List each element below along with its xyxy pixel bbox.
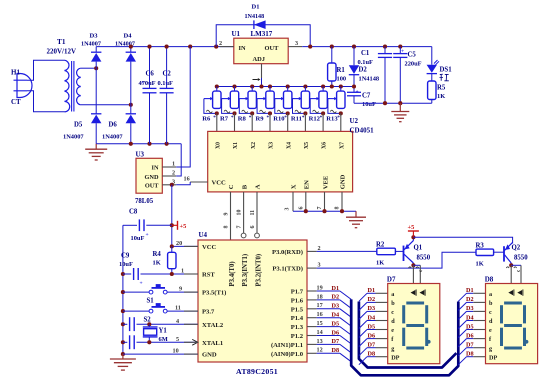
- wire bus to D7 pin (net D7): [359, 348, 367, 356]
- wire bus to D7 pin (net D6): [359, 339, 367, 347]
- svg-text:OUT: OUT: [265, 45, 280, 52]
- svg-text:11: 11: [250, 210, 256, 216]
- svg-text:P3.1(TXD): P3.1(TXD): [272, 266, 303, 273]
- svg-text:Q1: Q1: [414, 245, 423, 252]
- svg-text:VCC: VCC: [202, 244, 217, 251]
- svg-text:D5: D5: [368, 323, 376, 330]
- wire +12 to U3 IN: [176, 47, 190, 167]
- node secondary-bottom / D4-D6 junction: [129, 103, 133, 107]
- svg-text:(AIN0)P1.0: (AIN0)P1.0: [271, 351, 304, 358]
- svg-text:C1: C1: [361, 50, 370, 57]
- connector H1 (AC plug): [14, 74, 33, 98]
- svg-text:10uF: 10uF: [362, 101, 376, 108]
- svg-text:B: B: [241, 184, 248, 189]
- svg-text:LM317: LM317: [251, 30, 273, 38]
- svg-text:8550: 8550: [514, 255, 528, 262]
- pin 1 U1 ADJ: [261, 64, 263, 78]
- svg-text:DS1: DS1: [440, 67, 453, 74]
- pin 10 U2 B to U4 pin 7: [243, 192, 245, 233]
- svg-text:10uF: 10uF: [131, 235, 145, 242]
- svg-text:+5: +5: [408, 224, 415, 231]
- svg-text:VCC: VCC: [212, 180, 227, 187]
- svg-text:3: 3: [318, 262, 321, 269]
- wire secondary bottom to bridge: [81, 104, 131, 106]
- svg-text:6: 6: [250, 226, 256, 229]
- svg-text:7: 7: [317, 207, 323, 210]
- svg-text:S1: S1: [147, 298, 155, 305]
- svg-text:VEE: VEE: [322, 175, 329, 189]
- svg-text:20: 20: [176, 240, 182, 247]
- wire Q2 collector to D8 anodes: [509, 263, 513, 267]
- svg-text:1K: 1K: [376, 260, 384, 267]
- wire bus to D8 pin (net D8): [458, 357, 466, 365]
- svg-text:78L05: 78L05: [135, 198, 154, 205]
- svg-text:P1.5: P1.5: [291, 306, 304, 313]
- wire P1.1 (net D7) to bus: [307, 343, 317, 345]
- svg-text:D1: D1: [466, 287, 474, 294]
- display D7 (7-segment): [388, 284, 440, 364]
- svg-text:P1.2: P1.2: [291, 333, 304, 340]
- svg-text:D7: D7: [368, 342, 376, 349]
- svg-text:Q2: Q2: [512, 245, 521, 252]
- svg-text:GND: GND: [145, 174, 159, 181]
- svg-text:+: +: [146, 232, 149, 238]
- wire bus to D7 pin (net D5): [359, 330, 367, 338]
- svg-text:5: 5: [176, 336, 179, 343]
- svg-text:0.1uF: 0.1uF: [358, 59, 374, 66]
- svg-text:D6: D6: [368, 332, 376, 339]
- potentiometer R10: [286, 84, 290, 88]
- svg-text:3: 3: [285, 208, 291, 211]
- svg-text:U2: U2: [350, 117, 359, 125]
- pin X6 wire: [322, 113, 324, 131]
- svg-text:R1: R1: [337, 67, 346, 74]
- node secondary-top / D3-D5 junction: [94, 66, 98, 70]
- svg-text:RST: RST: [202, 272, 215, 279]
- svg-text:11: 11: [175, 305, 181, 312]
- svg-text:7: 7: [237, 226, 243, 229]
- svg-text:R5: R5: [437, 85, 446, 92]
- svg-text:1: 1: [181, 268, 184, 275]
- svg-text:D2: D2: [359, 67, 368, 74]
- svg-text:8550: 8550: [417, 255, 431, 262]
- svg-text:4: 4: [176, 318, 179, 325]
- svg-text:P3.0(RXD): P3.0(RXD): [272, 249, 303, 256]
- svg-text:R9: R9: [256, 116, 265, 123]
- svg-text:16: 16: [184, 176, 190, 183]
- svg-text:R8: R8: [238, 116, 247, 123]
- svg-text:*: *: [320, 115, 323, 121]
- wire bus to D8 pin (net D5): [458, 330, 466, 338]
- pin 1 U4 RST: [184, 273, 198, 275]
- pin 8 U2 GND: [341, 192, 343, 211]
- svg-text:2: 2: [318, 245, 321, 252]
- svg-text:18: 18: [317, 293, 323, 300]
- svg-text:D8: D8: [485, 276, 494, 284]
- pin 2 U3 GND: [162, 175, 176, 177]
- wire P1.3 (net D5) to bus: [307, 326, 317, 328]
- svg-text:14: 14: [317, 329, 323, 336]
- svg-text:*: *: [213, 115, 216, 121]
- svg-text:c: c: [391, 309, 394, 316]
- svg-text:D4: D4: [368, 314, 376, 321]
- potentiometer R12: [321, 84, 325, 88]
- ground (U2): [355, 211, 357, 217]
- power flag +5 (display driver): [411, 235, 415, 239]
- svg-text:16: 16: [317, 311, 323, 318]
- potentiometer R6: [215, 84, 219, 88]
- svg-text:P3.5(T1): P3.5(T1): [202, 290, 226, 297]
- svg-text:R6: R6: [202, 116, 211, 123]
- potentiometer R13: [339, 84, 343, 88]
- svg-text:1N4148: 1N4148: [245, 14, 265, 20]
- svg-text:X2: X2: [251, 142, 257, 149]
- multiplexer U2 CD4051: [208, 131, 353, 192]
- pin X2 wire: [251, 113, 253, 131]
- svg-text:D2: D2: [368, 296, 376, 303]
- svg-text:U1: U1: [232, 30, 241, 38]
- svg-text:D5: D5: [466, 323, 474, 330]
- svg-text:X1: X1: [233, 142, 239, 149]
- no-ERC arrow mark at ADJ: [253, 79, 258, 81]
- svg-text:1N4007: 1N4007: [102, 134, 123, 141]
- svg-text:e: e: [391, 327, 394, 334]
- svg-text:*: *: [249, 115, 252, 121]
- pin 9 U4 P3.5: [184, 291, 198, 293]
- svg-text:X4: X4: [286, 142, 292, 149]
- wire secondary top to bridge: [81, 67, 97, 69]
- svg-text:10: 10: [237, 210, 243, 216]
- svg-text:9: 9: [224, 213, 230, 216]
- svg-text:P1.6: P1.6: [291, 297, 304, 304]
- svg-text:D2: D2: [332, 294, 340, 301]
- capacitor (XTAL1 load): [121, 340, 125, 344]
- svg-text:EN: EN: [304, 180, 311, 189]
- svg-text:H1: H1: [11, 69, 20, 77]
- pin 3 U4 P3.1 to R3: [307, 267, 317, 269]
- wire +12V rail (bridge to U1 IN): [96, 46, 234, 48]
- svg-text:D3: D3: [368, 305, 376, 312]
- svg-text:D4: D4: [124, 33, 133, 40]
- svg-text:a: a: [391, 291, 394, 298]
- svg-text:9: 9: [179, 286, 182, 293]
- pin 20 U4 VCC: [172, 245, 198, 247]
- pin X4 wire: [287, 113, 289, 131]
- pin X0 wire: [216, 113, 218, 131]
- wire bus to D8 pin (net D6): [458, 339, 466, 347]
- svg-text:CD4051: CD4051: [350, 127, 375, 135]
- wire +5 riser: [171, 185, 173, 247]
- svg-text:D1: D1: [252, 4, 260, 11]
- pin 2 U4 P3.0 to R2: [307, 250, 317, 252]
- pin 16 U2 VCC: [190, 181, 208, 183]
- pin 3 U3 OUT: [162, 184, 176, 186]
- svg-text:C9: C9: [121, 253, 130, 260]
- wire bus to D7 pin (net D8): [359, 357, 367, 365]
- svg-text:D6: D6: [466, 332, 474, 339]
- svg-text:100: 100: [337, 76, 347, 83]
- svg-text:OUT: OUT: [145, 183, 159, 190]
- power flag +5 (U3 output): [172, 224, 178, 226]
- svg-text:R4: R4: [153, 251, 162, 258]
- wire P1.7 (net D1) to bus: [307, 290, 317, 292]
- display D8 (7-segment): [486, 284, 538, 364]
- svg-text:Y1: Y1: [159, 328, 168, 335]
- svg-text:b: b: [391, 300, 395, 307]
- svg-text:C7: C7: [362, 93, 371, 100]
- svg-text:D3: D3: [466, 305, 474, 312]
- svg-text:1: 1: [172, 161, 175, 168]
- svg-text:P3.3(INT1): P3.3(INT1): [242, 254, 249, 287]
- svg-text:P1.4: P1.4: [291, 315, 304, 322]
- svg-text:D6: D6: [109, 122, 118, 129]
- wire bus to D8 pin (net D3): [458, 311, 466, 319]
- wire U2 X/EN/VEE/GND to ground: [293, 210, 356, 212]
- svg-text:T1: T1: [57, 37, 66, 46]
- svg-text:c: c: [489, 309, 492, 316]
- pin 3 U2 X to ground wire: [292, 192, 294, 211]
- wire analog ground rail: [354, 102, 432, 104]
- wire P1.2 (net D6) to bus: [307, 335, 317, 337]
- wire +5 rail to Q2 emitter: [413, 237, 512, 243]
- potentiometer R8: [250, 84, 254, 88]
- svg-text:CT: CT: [11, 98, 21, 106]
- svg-text:X: X: [291, 184, 298, 189]
- svg-text:17: 17: [317, 302, 323, 309]
- svg-text:1K: 1K: [476, 261, 484, 268]
- svg-text:+5: +5: [180, 223, 187, 230]
- wire bus to D7 pin (net D1): [359, 293, 367, 301]
- potentiometer R11: [303, 84, 307, 88]
- pin 5 U4 XTAL1: [184, 341, 198, 343]
- ground (filter): [399, 103, 401, 111]
- svg-text:D5: D5: [74, 122, 83, 129]
- svg-text:IN: IN: [239, 45, 246, 52]
- pin X1 wire: [234, 113, 236, 131]
- svg-text:D8: D8: [466, 351, 474, 358]
- svg-text:P3.7: P3.7: [202, 309, 215, 316]
- svg-text:220uF: 220uF: [405, 61, 422, 68]
- svg-text:GND: GND: [340, 174, 347, 189]
- wire left ground rail: [122, 225, 124, 354]
- svg-text:1K: 1K: [153, 260, 161, 267]
- svg-text:0.1uF: 0.1uF: [158, 80, 174, 87]
- svg-text:+: +: [140, 281, 143, 287]
- wire H1 to transformer primary: [27, 60, 65, 80]
- potentiometer R9: [268, 84, 272, 88]
- svg-text:15: 15: [317, 320, 323, 327]
- svg-text:+: +: [141, 80, 144, 86]
- wire Q1 collector to D7 anodes: [411, 263, 415, 267]
- svg-text:8: 8: [224, 226, 230, 229]
- svg-text:P1.7: P1.7: [291, 289, 304, 296]
- svg-text:X5: X5: [304, 142, 310, 149]
- svg-text:D4: D4: [466, 314, 474, 321]
- svg-text:P3.2(INT0): P3.2(INT0): [255, 254, 262, 287]
- wire bus to D7 pin (net D2): [359, 302, 367, 310]
- svg-text:e: e: [489, 327, 492, 334]
- ground (bridge): [95, 144, 97, 149]
- ground (MCU): [122, 354, 124, 359]
- pin 11 U4 P3.7: [184, 310, 198, 312]
- op-amp U1 LM317 regulator: [234, 38, 288, 64]
- svg-text:D8: D8: [332, 347, 340, 354]
- wire U3 GND to bridge rail: [176, 144, 181, 176]
- wire bus to D8 pin (net D4): [458, 321, 466, 329]
- svg-text:D6: D6: [332, 329, 340, 336]
- svg-text:D7: D7: [332, 338, 340, 345]
- svg-text:*: *: [267, 115, 270, 121]
- svg-text:(AIN1)P1.1: (AIN1)P1.1: [271, 342, 303, 349]
- wire bus to D8 pin (net D7): [458, 348, 466, 356]
- svg-text:P3.4(T0): P3.4(T0): [229, 261, 236, 286]
- pin 4 U4 XTAL2: [184, 323, 198, 325]
- svg-text:XTAL2: XTAL2: [202, 322, 224, 329]
- svg-text:a: a: [489, 291, 492, 298]
- svg-text:U4: U4: [199, 231, 208, 239]
- svg-text:*: *: [302, 115, 305, 121]
- svg-text:D3: D3: [90, 33, 99, 40]
- svg-text:d: d: [489, 318, 493, 325]
- wire P1.0 (net D8) to bus: [307, 352, 317, 354]
- pin 6 U2 EN: [305, 192, 307, 211]
- wire U3 OUT to U2 VCC: [176, 182, 190, 185]
- svg-text:d: d: [391, 318, 395, 325]
- svg-text:2: 2: [219, 40, 222, 47]
- svg-text:D1: D1: [332, 285, 340, 292]
- svg-text:D3: D3: [332, 303, 340, 310]
- svg-text:A: A: [255, 184, 262, 189]
- svg-text:12: 12: [317, 347, 323, 354]
- svg-text:P1.3: P1.3: [291, 324, 304, 331]
- svg-text:R2: R2: [376, 242, 385, 249]
- svg-text:XTAL1: XTAL1: [202, 340, 223, 347]
- wire P1.5 (net D3) to bus: [307, 308, 317, 310]
- svg-text:GND: GND: [202, 352, 217, 359]
- svg-text:IN: IN: [152, 165, 159, 172]
- wire bridge negative rail: [96, 143, 181, 145]
- pin 9 U2 C to U4 pin 8: [230, 192, 232, 240]
- svg-text:*: *: [337, 115, 340, 121]
- svg-text:220V/12V: 220V/12V: [47, 48, 77, 56]
- clock marker XTAL1: [192, 339, 198, 345]
- svg-text:D7: D7: [387, 276, 396, 284]
- wire P1.6 (net D2) to bus: [307, 299, 317, 301]
- pin 7 U2 VEE: [324, 192, 326, 211]
- bus (D7 side): [359, 302, 457, 368]
- svg-text:X0: X0: [215, 142, 221, 149]
- svg-text:ADJ: ADJ: [253, 56, 266, 63]
- svg-text:D1: D1: [368, 287, 376, 294]
- pin X3 wire: [269, 113, 271, 131]
- svg-text:X3: X3: [269, 142, 275, 149]
- svg-text:X6: X6: [322, 142, 328, 149]
- svg-text:D5: D5: [332, 320, 340, 327]
- svg-text:D2: D2: [466, 296, 474, 303]
- pin 3 U1 OUT: [288, 46, 302, 48]
- pin 10 U4 GND: [121, 352, 125, 356]
- svg-text:19: 19: [317, 284, 323, 291]
- svg-text:R7: R7: [220, 116, 229, 123]
- wire U1 OUT rail: [302, 46, 432, 48]
- svg-text:b: b: [489, 300, 493, 307]
- svg-text:*: *: [284, 115, 287, 121]
- pin X7 wire: [340, 113, 342, 131]
- svg-text:3: 3: [295, 40, 298, 47]
- microcontroller U4 AT89C2051: [198, 240, 307, 362]
- capacitor (XTAL2 load): [121, 322, 125, 326]
- bus (MCU side): [351, 299, 458, 375]
- svg-text:10uF: 10uF: [119, 261, 133, 268]
- svg-text:1N4148: 1N4148: [359, 76, 380, 83]
- svg-text:C8: C8: [129, 209, 138, 216]
- svg-text:1N4007: 1N4007: [63, 134, 84, 141]
- pin 1 U3 IN: [162, 166, 176, 168]
- svg-text:X7: X7: [339, 142, 345, 149]
- pin X5 wire: [304, 113, 306, 131]
- pin 2 U1 IN: [220, 46, 234, 48]
- wire bus to D7 pin (net D3): [359, 311, 367, 319]
- svg-text:2: 2: [172, 170, 175, 177]
- regulator U3 78L05: [136, 158, 162, 193]
- svg-text:D4: D4: [332, 312, 340, 319]
- svg-text:AT89C2051: AT89C2051: [236, 367, 278, 376]
- wire P1.4 (net D4) to bus: [307, 317, 317, 319]
- svg-text:DP: DP: [391, 354, 399, 361]
- svg-text:D8: D8: [368, 351, 376, 358]
- svg-text:U3: U3: [136, 151, 145, 159]
- svg-text:*: *: [231, 115, 234, 121]
- pin 11 U2 A to U4 pin 6: [256, 192, 258, 233]
- svg-text:13: 13: [317, 338, 323, 345]
- svg-text:10: 10: [173, 348, 179, 355]
- wire bus to D8 pin (net D2): [458, 302, 466, 310]
- svg-text:DP: DP: [489, 354, 497, 361]
- svg-text:8: 8: [335, 207, 341, 210]
- wire bus to D7 pin (net D4): [359, 321, 367, 329]
- wire ADJ to divider rail: [261, 78, 263, 87]
- potentiometer R7: [232, 84, 236, 88]
- svg-text:D7: D7: [466, 342, 474, 349]
- wire divider rail (ADJ bus): [217, 86, 354, 88]
- svg-text:6: 6: [299, 207, 305, 210]
- svg-text:C: C: [228, 184, 235, 189]
- svg-text:C5: C5: [408, 52, 417, 59]
- wire bus to D8 pin (net D1): [458, 293, 466, 301]
- svg-text:1K: 1K: [437, 93, 445, 100]
- svg-text:R11: R11: [291, 116, 302, 123]
